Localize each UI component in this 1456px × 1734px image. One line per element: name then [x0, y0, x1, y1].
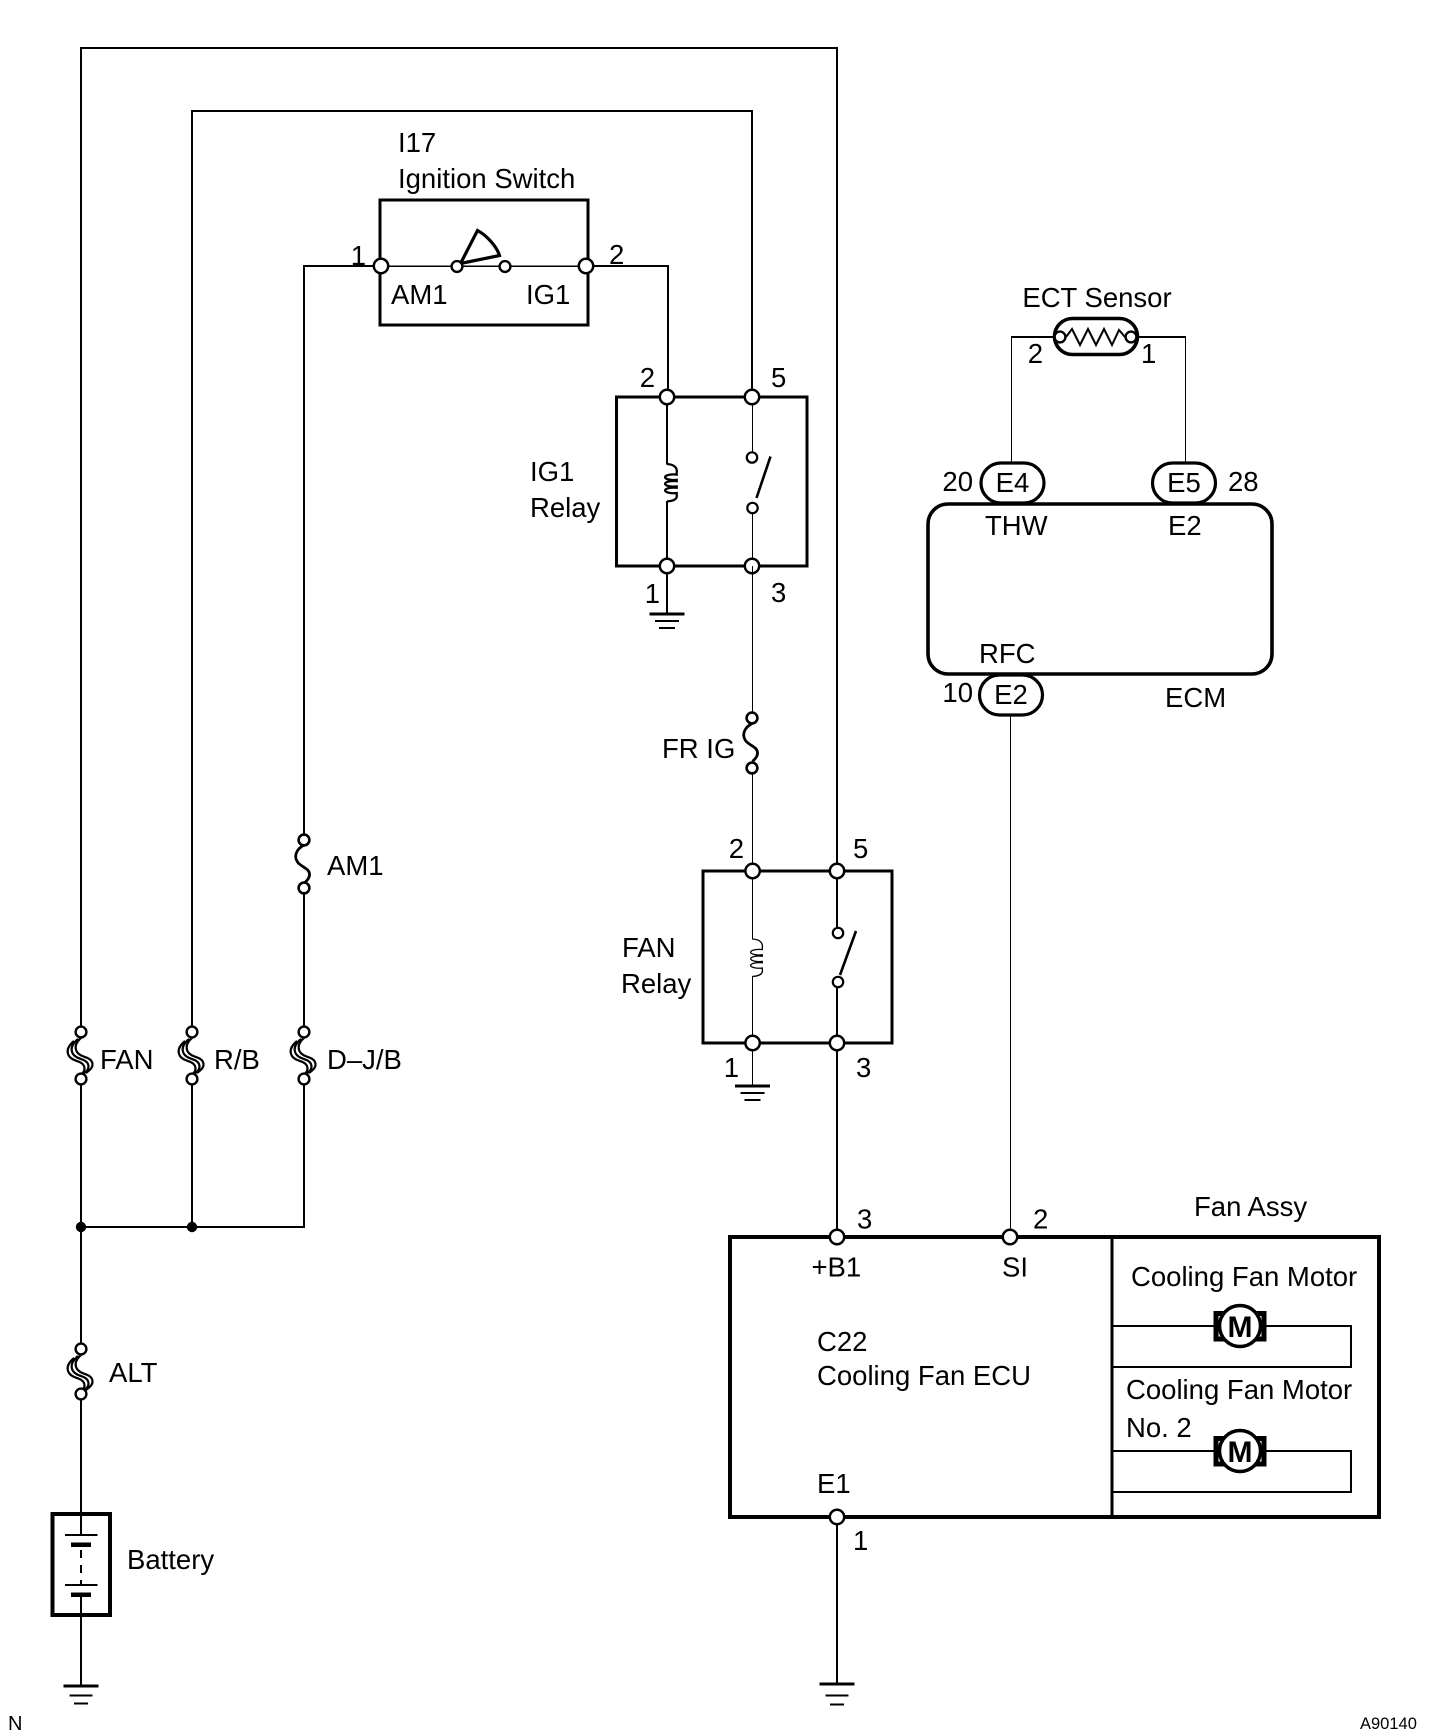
- ECU pin 1 (E1): [830, 1510, 844, 1524]
- svg-text:D–J/B: D–J/B: [327, 1044, 402, 1075]
- svg-text:1: 1: [351, 240, 366, 271]
- ignition switch terminal pin 2: [579, 259, 593, 273]
- svg-text:ALT: ALT: [109, 1357, 158, 1388]
- relay IG1 switch lower contact: [747, 503, 757, 513]
- wire ignition switch terminal 2 to IG1 relay pin 2: [586, 266, 668, 397]
- svg-text:E2: E2: [994, 679, 1028, 710]
- wire ECT sensor terminal 1 to ECM E5: [1131, 336, 1186, 338]
- relay FAN pin 1: [745, 1036, 759, 1050]
- svg-text:AM1: AM1: [391, 279, 448, 310]
- relay FAN switch lower contact: [833, 977, 843, 987]
- svg-text:5: 5: [771, 362, 786, 393]
- svg-text:R/B: R/B: [214, 1044, 260, 1075]
- wire R/B fuse to junction bus: [191, 1079, 193, 1227]
- ground FAN relay: [735, 1086, 770, 1100]
- svg-text:ECM: ECM: [1165, 682, 1226, 713]
- relay IG1 switch wire: [752, 397, 754, 566]
- wire battery FAN-fuse outer loop to FAN relay pin 5: [81, 48, 837, 1032]
- fusible link FAN: [68, 1027, 93, 1085]
- wire R/B loop to IG1 relay pin 5: [192, 111, 752, 1032]
- cooling fan ECU and fan assy outer box: [730, 1237, 1379, 1517]
- svg-text:+B1: +B1: [812, 1252, 862, 1283]
- motor M2 brackets: [1216, 1439, 1264, 1465]
- resistor element inside ECT sensor: [1066, 329, 1125, 345]
- svg-text:1: 1: [645, 578, 660, 609]
- relay FAN pin 3: [830, 1036, 844, 1050]
- ground IG1 relay: [650, 614, 685, 628]
- svg-text:2: 2: [640, 362, 655, 393]
- svg-text:3: 3: [771, 577, 786, 608]
- svg-text:E2: E2: [1168, 510, 1202, 541]
- svg-text:5: 5: [853, 833, 868, 864]
- svg-text:No. 2: No. 2: [1126, 1412, 1192, 1443]
- motor M1 circle: [1220, 1306, 1261, 1347]
- svg-text:RFC: RFC: [979, 638, 1036, 669]
- fuse AM1: [296, 835, 310, 894]
- motor M2 circle: [1220, 1431, 1261, 1472]
- connector E5: [1153, 463, 1216, 503]
- svg-text:M: M: [1228, 1311, 1253, 1344]
- ECM box: [928, 504, 1272, 674]
- switch contact pole AM1 side: [452, 261, 463, 272]
- relay FAN pin 5: [830, 864, 844, 878]
- svg-text:A90140: A90140: [1360, 1715, 1417, 1733]
- wire FAN relay pin 3 to cooling fan ECU +B1: [836, 1043, 838, 1237]
- connector E4: [981, 463, 1044, 503]
- svg-text:1: 1: [853, 1525, 868, 1556]
- switch lever wedge inside ignition switch: [461, 231, 500, 264]
- ignition switch terminal pin 1: [374, 259, 388, 273]
- svg-text:IG1: IG1: [530, 456, 574, 487]
- svg-text:FAN: FAN: [100, 1044, 153, 1075]
- fan motor 2 wire loop: [1112, 1451, 1351, 1492]
- ignition switch I17: [380, 200, 588, 325]
- node junction dot R/B bus: [187, 1222, 197, 1232]
- relay FAN pin 2: [745, 864, 759, 878]
- ground battery: [64, 1686, 99, 1704]
- svg-text:IG1: IG1: [526, 279, 570, 310]
- wire AM1 fuse to D-J/B fuse: [303, 887, 305, 1032]
- svg-text:E4: E4: [996, 467, 1030, 498]
- svg-text:SI: SI: [1002, 1252, 1028, 1283]
- svg-text:I17: I17: [398, 127, 436, 158]
- svg-text:Relay: Relay: [530, 492, 601, 523]
- svg-text:Fan Assy: Fan Assy: [1194, 1191, 1307, 1222]
- svg-text:Cooling Fan ECU: Cooling Fan ECU: [817, 1360, 1031, 1391]
- svg-text:FR IG: FR IG: [662, 733, 735, 764]
- svg-text:Cooling Fan Motor: Cooling Fan Motor: [1131, 1261, 1357, 1292]
- svg-text:10: 10: [942, 677, 973, 708]
- wire FR IG fuse to FAN relay pin 2: [752, 773, 754, 871]
- fusible link D-J/B: [291, 1027, 316, 1085]
- svg-text:2: 2: [609, 239, 624, 270]
- relay IG1 switch lever: [757, 457, 771, 499]
- relay FAN coil wire: [752, 871, 754, 1043]
- svg-text:Relay: Relay: [621, 968, 692, 999]
- wire D-J/B fuse to junction bus: [81, 1079, 304, 1227]
- wire FAN fuse to junction and ALT fusible link: [80, 1079, 82, 1349]
- svg-text:ECT Sensor: ECT Sensor: [1022, 282, 1171, 313]
- wire ECT sensor terminal 2 to ECM E4: [1011, 336, 1060, 338]
- svg-text:AM1: AM1: [327, 850, 384, 881]
- svg-text:1: 1: [1141, 338, 1156, 369]
- svg-text:2: 2: [729, 833, 744, 864]
- motor M1 brackets: [1216, 1314, 1264, 1340]
- relay FAN coil: [751, 939, 763, 976]
- ECU pin 2 (SI): [1003, 1230, 1017, 1244]
- relay IG1 pin 2: [660, 390, 674, 404]
- connector E2 bottom: [980, 675, 1043, 715]
- battery: [53, 1514, 111, 1615]
- fan motor 1 wire loop: [1112, 1326, 1351, 1367]
- relay FAN switch lever: [840, 931, 856, 975]
- relay FAN switch wire: [836, 871, 838, 1043]
- svg-text:Cooling Fan Motor: Cooling Fan Motor: [1126, 1374, 1352, 1405]
- wire cooling fan ECU E1 to ground: [836, 1517, 838, 1683]
- node junction dot FAN bus: [76, 1222, 86, 1232]
- svg-text:E1: E1: [817, 1468, 851, 1499]
- ECT sensor body: [1055, 319, 1138, 355]
- wire ECM E2 (RFC) to cooling fan ECU SI: [1010, 714, 1012, 1237]
- relay IG1 coil: [665, 464, 677, 501]
- svg-text:E5: E5: [1167, 467, 1201, 498]
- svg-text:N: N: [8, 1713, 22, 1734]
- relay IG1 pin 1: [660, 559, 674, 573]
- ECT sensor terminal 2 circle: [1055, 332, 1066, 343]
- relay IG1 box: [617, 397, 808, 566]
- fusible link R/B: [179, 1027, 204, 1085]
- wire IG1 relay pin 1 to ground: [666, 573, 668, 613]
- svg-text:2: 2: [1028, 338, 1043, 369]
- svg-text:Ignition Switch: Ignition Switch: [398, 163, 575, 194]
- svg-text:FAN: FAN: [622, 932, 675, 963]
- svg-text:20: 20: [942, 466, 973, 497]
- svg-text:M: M: [1228, 1436, 1253, 1469]
- relay IG1 pin 3: [745, 559, 759, 573]
- svg-text:28: 28: [1228, 466, 1259, 497]
- wire ignition switch terminal 1 to AM1 fuse: [304, 266, 381, 841]
- wire FAN relay pin 1 to ground: [752, 1050, 754, 1085]
- relay FAN box: [703, 871, 892, 1043]
- switch contact pole IG1 side: [500, 261, 511, 272]
- ECT sensor terminal 1 circle: [1126, 332, 1137, 343]
- ground cooling fan ECU E1: [820, 1684, 855, 1705]
- svg-text:3: 3: [856, 1052, 871, 1083]
- relay IG1 pin 5: [745, 390, 759, 404]
- wire ALT fusible link to battery: [80, 1394, 82, 1535]
- svg-text:Battery: Battery: [127, 1544, 214, 1575]
- fuse FR IG: [744, 713, 758, 774]
- relay IG1 switch upper contact: [747, 452, 757, 462]
- svg-text:3: 3: [857, 1204, 872, 1235]
- wire battery negative to ground: [80, 1596, 82, 1685]
- ECU pin 3 (+B1): [830, 1230, 844, 1244]
- divider between ECU and fan assy: [1111, 1237, 1114, 1517]
- fusible link ALT: [68, 1344, 93, 1400]
- svg-text:2: 2: [1033, 1204, 1048, 1235]
- svg-text:C22: C22: [817, 1326, 867, 1357]
- svg-text:1: 1: [724, 1052, 739, 1083]
- relay IG1 coil wire: [666, 397, 668, 566]
- svg-text:THW: THW: [985, 510, 1048, 541]
- relay FAN switch upper contact: [833, 928, 843, 938]
- wire IG1 relay pin 3 to FR IG fuse: [752, 566, 754, 713]
